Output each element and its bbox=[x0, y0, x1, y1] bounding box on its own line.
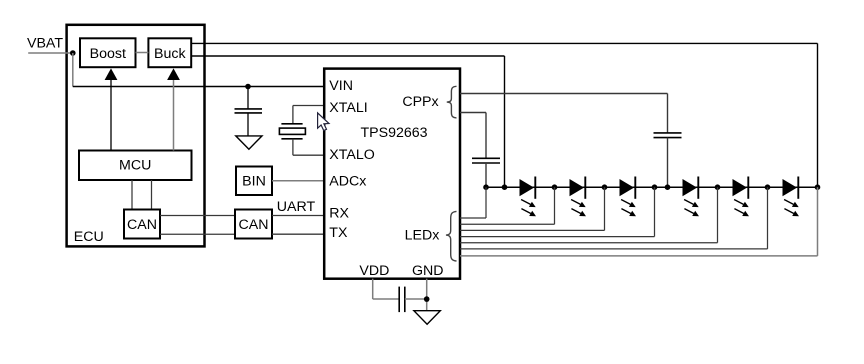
block CAN transceiver bbox=[235, 210, 272, 239]
wire VBAT input bbox=[28, 52, 73, 54]
svg-text:RX: RX bbox=[329, 206, 349, 222]
LED D3 bbox=[620, 179, 635, 196]
capacitor C1 plates bbox=[235, 108, 263, 110]
capacitor C4 plates bbox=[398, 287, 400, 313]
wire CAN to CAN upper bbox=[160, 215, 235, 217]
svg-text:TX: TX bbox=[329, 225, 348, 241]
wire LEDx tap 4 horizontal bbox=[460, 236, 655, 238]
wire XTALI bbox=[293, 105, 324, 107]
svg-text:VIN: VIN bbox=[329, 78, 353, 94]
junction LED rail node 5 bbox=[652, 184, 658, 190]
junction LED rail node 4 bbox=[602, 184, 608, 190]
wire LEDx tap 2 horizontal bbox=[460, 223, 555, 225]
LED D4 bbox=[683, 179, 698, 196]
brace CPPx pins bbox=[447, 86, 457, 118]
wire Buck top drop to string end bbox=[817, 43, 819, 187]
wire LEDx tap 1 horizontal bbox=[460, 217, 486, 219]
junction LED rail node 6 bbox=[665, 184, 671, 190]
capacitor C3 top lead bbox=[667, 94, 669, 133]
wire MCU to CAN a bbox=[131, 180, 133, 210]
junction LED rail node 7 bbox=[715, 184, 721, 190]
crystal Y1 vertical top lead bbox=[292, 106, 294, 124]
crystal Y1 bottom plate bbox=[281, 138, 302, 140]
wire LEDx tap 5 vertical bbox=[717, 187, 719, 243]
wire MCU to CAN b bbox=[151, 180, 153, 210]
block MCU bbox=[79, 151, 192, 181]
LED D6 bbox=[783, 179, 798, 196]
wire LEDx tap 6 horizontal bbox=[460, 248, 768, 250]
wire VDD to C4 bbox=[373, 298, 400, 300]
capacitor C2 plates bbox=[472, 157, 500, 159]
junction LED rail node 3 bbox=[552, 184, 558, 190]
wire Buck output lower run bbox=[191, 55, 504, 57]
wire LEDx tap 4 vertical bbox=[654, 187, 656, 236]
wire Buck output top run bbox=[191, 42, 817, 44]
svg-text:VBAT: VBAT bbox=[27, 36, 63, 52]
mouse cursor bbox=[318, 113, 329, 131]
wire CAN to CAN lower bbox=[160, 233, 235, 235]
crystal Y1 body bbox=[279, 128, 305, 134]
svg-text:Boost: Boost bbox=[90, 46, 126, 62]
svg-text:MCU: MCU bbox=[119, 158, 151, 174]
capacitor C1 lead top bbox=[247, 87, 249, 109]
svg-text:CAN: CAN bbox=[239, 217, 269, 233]
capacitor C1 lead bottom bbox=[247, 113, 249, 136]
wire LEDx tap 3 vertical bbox=[604, 187, 606, 230]
svg-text:VDD: VDD bbox=[359, 263, 389, 279]
wire LEDx tap 6 vertical bbox=[767, 187, 769, 249]
junction VIN cap node bbox=[245, 84, 251, 90]
wire CPPx lower run bbox=[460, 112, 486, 114]
ground symbol for GND pin bbox=[414, 311, 440, 325]
wire BIN to ADCx bbox=[272, 180, 324, 182]
LED D1 bbox=[520, 179, 535, 196]
wire MCU to Buck arrow bbox=[173, 79, 175, 151]
svg-text:XTALO: XTALO bbox=[329, 147, 374, 163]
ground symbol for C1 bbox=[236, 136, 262, 149]
svg-text:Buck: Buck bbox=[154, 46, 186, 62]
wire XTALO bbox=[293, 154, 324, 156]
wire LEDx tap 3 horizontal bbox=[460, 229, 605, 231]
wire LED string rail bbox=[486, 186, 818, 188]
block Buck bbox=[148, 38, 191, 67]
svg-text:ECU: ECU bbox=[74, 229, 104, 245]
brace LEDx pins bbox=[446, 211, 457, 261]
crystal Y1 top plate bbox=[281, 123, 302, 125]
capacitor C2 top lead bbox=[485, 113, 487, 159]
wire VDD pin down bbox=[372, 279, 374, 299]
svg-text:CAN: CAN bbox=[127, 217, 157, 233]
junction VBAT node bbox=[70, 50, 76, 56]
LED D2 bbox=[570, 179, 585, 196]
svg-text:CPPx: CPPx bbox=[402, 94, 438, 110]
junction GND node bbox=[424, 296, 430, 302]
wire LEDx tap 2 vertical bbox=[554, 187, 556, 224]
wire CAN to TX bbox=[272, 233, 324, 235]
crystal Y1 bottom lead bbox=[292, 139, 294, 155]
capacitor C3 plates bbox=[654, 132, 682, 134]
wire VBAT down to VIN rail bbox=[72, 53, 74, 87]
wire Buck lower drop to string head bbox=[504, 56, 506, 187]
block Boost bbox=[80, 38, 136, 67]
capacitor C2 bottom lead bbox=[485, 163, 487, 187]
svg-text:ADCx: ADCx bbox=[329, 173, 366, 189]
wire Boost to Buck bbox=[136, 52, 149, 54]
IC U1 TPS92663 outline bbox=[324, 69, 460, 279]
svg-text:GND: GND bbox=[412, 263, 444, 279]
junction LED rail node 9 bbox=[815, 184, 821, 190]
wire CAN to RX bbox=[272, 215, 324, 217]
wire LEDx tap 1 vertical bbox=[485, 187, 487, 218]
capacitor C3 bottom lead bbox=[667, 138, 669, 188]
junction LED rail node 8 bbox=[765, 184, 771, 190]
wire LEDx tap 7 horizontal bbox=[460, 255, 818, 257]
wire GND pin down bbox=[426, 279, 428, 311]
svg-text:XTALI: XTALI bbox=[329, 100, 367, 116]
block CAN (ECU) bbox=[124, 210, 160, 239]
junction LED rail node 2 bbox=[502, 184, 508, 190]
wire MCU to Boost arrow bbox=[110, 79, 112, 151]
svg-text:UART: UART bbox=[277, 199, 316, 215]
wire VIN rail bbox=[73, 86, 324, 88]
svg-text:BIN: BIN bbox=[242, 173, 266, 189]
wire LEDx tap 7 vertical bbox=[817, 187, 819, 256]
svg-text:LEDx: LEDx bbox=[405, 227, 440, 243]
wire CPPx upper run bbox=[460, 93, 668, 95]
wire LEDx tap 5 horizontal bbox=[460, 242, 718, 244]
ECU block outline bbox=[67, 25, 205, 247]
LED D5 bbox=[733, 179, 748, 196]
svg-text:TPS92663: TPS92663 bbox=[361, 125, 428, 141]
wire C4 to GND bbox=[405, 298, 427, 300]
junction LED rail node 1 bbox=[483, 184, 489, 190]
block BIN bbox=[236, 167, 272, 196]
